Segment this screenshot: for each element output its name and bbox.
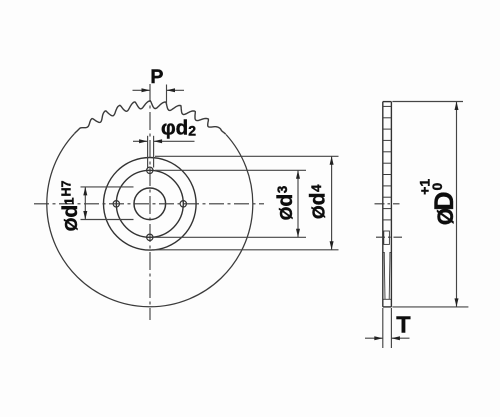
dim phi-d3 ext top xyxy=(155,169,306,171)
SIDE VIEW xyxy=(383,102,392,307)
dim T ext left xyxy=(382,308,384,348)
arrow phi-d4 top xyxy=(330,156,334,165)
arrow P right xyxy=(167,88,176,92)
arrow phi-D bottom xyxy=(455,298,459,307)
svg-text:Ød4: Ød4 xyxy=(307,184,330,219)
bolt hole bottom xyxy=(147,234,153,240)
bolt circle phi-d3 xyxy=(116,170,183,237)
bolt hole right xyxy=(180,201,186,207)
arrow phi-d2 left xyxy=(139,139,148,143)
dim phi-d2 line left xyxy=(133,140,148,142)
dim phi-d1 line xyxy=(84,187,86,220)
side view center line xyxy=(375,203,400,205)
dim phi-d3 ext bottom xyxy=(154,236,306,238)
arrow phi-d1 top xyxy=(83,187,87,196)
dim phi-D ext top xyxy=(392,101,463,103)
side view hidden bolt hole xyxy=(384,231,390,244)
dim phi-D ext bottom xyxy=(392,306,468,308)
bolt hole top xyxy=(147,167,153,173)
arrow phi-d4 bottom xyxy=(330,241,334,250)
arrow phi-d2 right xyxy=(154,139,163,143)
dim T line left xyxy=(365,337,383,339)
svg-text:ØD+10: ØD+10 xyxy=(416,179,459,225)
center line vertical xyxy=(149,84,151,320)
arrow T right xyxy=(391,336,400,340)
svg-text:φd2: φd2 xyxy=(161,116,196,139)
side view hole center line xyxy=(376,236,402,238)
dim phi-d4 ext bottom xyxy=(152,249,339,251)
side view right edge xyxy=(390,102,392,307)
dim T ext right xyxy=(390,308,392,348)
dim phi-d2 ext right xyxy=(153,136,155,168)
label phi-D +1/0 xyxy=(416,179,459,225)
hub circle phi-d4 xyxy=(104,158,197,251)
side view top cap xyxy=(383,101,392,103)
side view teeth ticks xyxy=(383,106,392,219)
label phi-d1 H7 xyxy=(59,180,82,231)
dim phi-d1 ext top xyxy=(81,186,134,188)
dim P line left xyxy=(133,89,151,91)
center line horizontal xyxy=(34,203,264,205)
svg-text:P: P xyxy=(150,66,163,88)
dim T line right xyxy=(391,337,409,339)
svg-text:Ød3: Ød3 xyxy=(274,185,297,220)
dim phi-d1 ext bottom xyxy=(81,219,134,221)
svg-text:Ød1H7: Ød1H7 xyxy=(59,180,82,231)
bolt hole left xyxy=(113,201,119,207)
arrow T left xyxy=(374,336,383,340)
svg-text:T: T xyxy=(396,311,411,337)
blade outer circle arc xyxy=(47,133,253,306)
arrow phi-d3 top xyxy=(296,170,300,179)
dim phi-d4 line xyxy=(331,156,333,250)
side view left edge xyxy=(382,102,384,307)
dim phi-d2 line right xyxy=(154,140,195,142)
dim P line right xyxy=(167,89,185,91)
dim P extension right xyxy=(166,85,168,105)
dim phi-d2 ext left xyxy=(147,136,149,168)
dim phi-D line xyxy=(456,102,458,307)
arrow phi-D top xyxy=(455,102,459,111)
label phi-d3 xyxy=(274,185,297,220)
label phi-d4 xyxy=(307,184,330,219)
side view bottom cap xyxy=(383,306,392,308)
arrow phi-d1 bottom xyxy=(83,211,87,220)
bore circle phi-d1 xyxy=(134,188,166,220)
dim phi-d3 line xyxy=(297,170,299,237)
dim phi-d4 ext top xyxy=(155,155,339,157)
arrow phi-d3 bottom xyxy=(296,229,300,238)
saw teeth xyxy=(75,101,226,134)
side view taper lines xyxy=(383,252,391,299)
arrow P left xyxy=(142,88,151,92)
